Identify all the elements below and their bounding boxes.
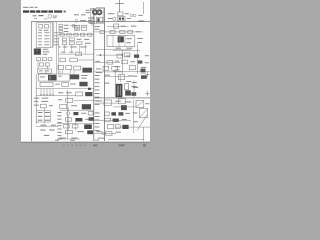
junction box J outline <box>107 35 135 46</box>
title line 2 (bold heading) <box>23 10 66 12</box>
connector row boxes <box>37 58 52 61</box>
control unit U1 outline <box>36 23 52 48</box>
vert x115.2 <box>114 70 116 98</box>
title line 1 (small) <box>23 7 38 8</box>
bm wire y110 <box>60 108 94 112</box>
fr row y66-73 <box>113 66 150 72</box>
ml row y43 <box>62 42 90 45</box>
ml cluster y65-73 <box>58 66 92 73</box>
gauge drops <box>92 16 95 26</box>
tr row1 <box>108 12 129 16</box>
gauge hatch dashes <box>86 10 94 23</box>
fr row y47-52 <box>113 48 140 51</box>
fbr dashes <box>115 113 137 133</box>
wire row y34.6 <box>58 34 94 36</box>
cluster rows near bus <box>95 26 100 29</box>
ll top box dark right <box>48 75 57 81</box>
box right of dark unit <box>124 84 128 90</box>
bm row y112 <box>67 112 93 116</box>
lr vert x134 <box>133 80 135 98</box>
right connector marks <box>138 2 144 21</box>
lr dashes y80-96 <box>131 82 138 96</box>
ll vert x44 drop <box>43 108 45 124</box>
ll top box marks <box>40 76 62 78</box>
gauge dial right (dark) <box>97 10 102 15</box>
lr dashes y100-106 <box>115 101 149 105</box>
box D marks <box>39 69 49 72</box>
ll comb drops <box>40 89 54 96</box>
wire row y31.8 <box>94 31 143 33</box>
gauge cluster box <box>96 17 102 23</box>
gauge dial left (dark) <box>92 10 97 15</box>
page (scanned sheet) <box>21 0 150 142</box>
ml vert x70 drop <box>69 70 71 74</box>
bl box outline <box>36 111 50 122</box>
J labels right <box>126 38 131 43</box>
page bottom edge shadow <box>21 142 150 143</box>
tiny text above frame <box>33 15 58 20</box>
ll junction dark <box>88 88 91 90</box>
bm label column <box>57 112 61 139</box>
bus x93.8 <box>93 8 95 141</box>
fr dark box y68 <box>141 69 146 72</box>
fr label rows y68-75 <box>96 69 102 73</box>
ll rows y92-97 <box>58 92 92 96</box>
lr vert x133.6 <box>133 100 135 133</box>
fbr vert x143.4 <box>142 127 144 141</box>
tr circle pair <box>130 14 136 17</box>
wire drop x38 <box>37 61 39 69</box>
bm row y137-140 <box>57 138 80 139</box>
lamp symbol L1 <box>70 24 77 27</box>
bm row y118 <box>65 117 93 121</box>
ll vert x67.6 <box>67 90 69 140</box>
J internal v1 <box>112 35 114 46</box>
box D with marks <box>38 69 52 73</box>
br row y118-123 <box>104 118 127 122</box>
fr right edge dashes <box>145 55 149 63</box>
ml row y52-56 <box>61 52 81 56</box>
U1 inner marks row <box>39 29 49 32</box>
gauge cluster outline <box>90 8 103 23</box>
br wire y133 <box>94 131 116 135</box>
J internal v2 <box>118 35 120 46</box>
ll second row <box>40 82 88 87</box>
ll wire y95.4 <box>36 95 76 97</box>
right col labels y38-45 <box>137 38 143 43</box>
mr row y66-71 <box>94 66 122 72</box>
bm vert drops low <box>68 115 75 130</box>
mr wire y49.6 <box>94 49 131 51</box>
bm row y130-135 <box>65 130 93 134</box>
ll wire y88.6 <box>36 88 94 90</box>
U1 inner box A <box>39 25 43 28</box>
lm strong wire y97.8 <box>94 97 150 99</box>
ml vertical drops <box>65 44 86 55</box>
left bus x36 lower <box>35 74 37 124</box>
footer mark 2 <box>119 144 125 146</box>
mr wire y55 <box>96 53 130 57</box>
ll dashes right <box>81 75 88 79</box>
bus x58.6 <box>58 37 60 74</box>
mr junction dots <box>100 54 123 55</box>
bl row y134-138 <box>44 135 50 136</box>
bus top elbow <box>96 8 105 11</box>
lr wire y106.8 <box>113 106 136 108</box>
ignition unit dark (dense) <box>116 84 123 97</box>
feed drop x119.6 top <box>119 0 121 12</box>
ll stubs above boxes <box>46 71 74 75</box>
ll dark cluster right <box>70 74 79 79</box>
footer page dots <box>63 145 86 146</box>
right edge cross sym 1 <box>145 72 149 77</box>
fr row y60-64 <box>115 60 143 64</box>
lm bus labels <box>95 75 100 105</box>
component row y33-36 <box>60 33 92 36</box>
tm rows box+dash <box>59 24 68 32</box>
ml wire y54 <box>59 53 94 55</box>
bl row y124-128 <box>36 125 58 127</box>
frame top border <box>31 21 150 23</box>
footer mark 3 <box>143 144 145 147</box>
ml row y47 <box>58 46 86 49</box>
br row y112-117 <box>105 112 130 116</box>
bl rows <box>38 112 50 121</box>
br label column <box>95 113 100 131</box>
bl row y128-133 <box>40 130 54 131</box>
feed tee y3.4 <box>116 2 125 4</box>
ll top box outline <box>39 74 70 81</box>
row y24-28 comp <box>113 24 136 28</box>
bm row y124-129 <box>63 124 91 129</box>
lr box diagonal <box>137 101 144 107</box>
bus x137.6 <box>137 44 139 74</box>
ml row y39 <box>62 38 89 41</box>
wire drop x47 <box>46 66 48 69</box>
U1 pin rows <box>38 32 59 45</box>
ll rows y104-110 <box>34 104 91 109</box>
relay K1 (dark blob) <box>34 48 41 54</box>
bus x53.8 <box>53 22 55 47</box>
bus x122.4 <box>121 50 123 74</box>
J dark corner (dense) <box>118 36 124 42</box>
lm boxes y98-110 <box>94 99 127 111</box>
main bus x104.5 <box>104 8 106 142</box>
lower boxes C <box>39 63 49 66</box>
tr row2 <box>108 17 131 21</box>
fr row y54-58 <box>117 54 139 58</box>
row y30-34 comps <box>100 30 140 33</box>
K1 labels <box>43 49 50 55</box>
small circle w2 <box>75 19 86 22</box>
relay box pair <box>74 25 86 30</box>
lm dashes y80-95 <box>126 81 137 92</box>
right edge cross sym 2 <box>145 91 149 97</box>
lm wire y76.2 <box>104 75 131 77</box>
lm dark box y90-96 <box>125 90 131 95</box>
lm top boxes y74-80 <box>119 74 134 83</box>
bus x56.5 <box>56 22 58 74</box>
ml row y58-62 <box>60 58 94 62</box>
U1 inner box B <box>45 25 49 28</box>
lr top cluster <box>133 73 147 79</box>
footer mark right <box>93 145 97 147</box>
viewer background <box>0 0 150 150</box>
mr row y62 <box>94 60 120 64</box>
lr box y100-108 <box>136 100 144 107</box>
wire row y26.4 <box>107 26 129 28</box>
ml vert x62 drop <box>61 70 63 74</box>
br row y137-140 <box>55 138 144 141</box>
lm dashes y75-86 <box>104 75 110 84</box>
bm wire y123.6 <box>57 123 94 125</box>
br wire y120.2 <box>94 119 131 121</box>
J internal v3 <box>124 35 126 46</box>
ll rows y97-103 <box>34 98 94 103</box>
U1 inner divider <box>50 23 52 47</box>
frame left border <box>30 22 32 142</box>
br row y124-130 <box>108 124 150 129</box>
upper small dashes <box>74 10 94 16</box>
fbr box w/ diagonals <box>137 109 147 131</box>
